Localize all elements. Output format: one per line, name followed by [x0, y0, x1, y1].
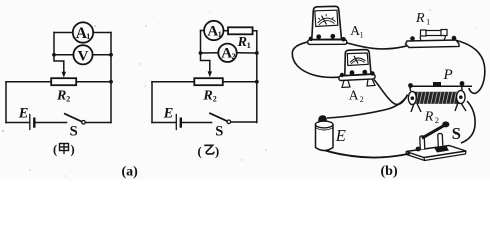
- slider arrowhead: [208, 71, 212, 77]
- battery E plates: [175, 115, 177, 130]
- battery cell E: [315, 115, 333, 150]
- node junction V right: [109, 53, 113, 57]
- svg-text:2: 2: [360, 95, 364, 104]
- base post right: [341, 37, 346, 42]
- wire rheostat right: [76, 81, 111, 83]
- wire rheostat left: [152, 81, 194, 83]
- feet right: [455, 103, 466, 112]
- inner line: [316, 128, 333, 130]
- wire battery left: [6, 122, 29, 124]
- wire A1 to R1: [224, 30, 229, 32]
- voltmeter V circle: [73, 45, 92, 64]
- wire slider feed: [201, 53, 210, 73]
- wire battery left: [152, 122, 176, 124]
- base plank: [339, 74, 375, 80]
- cap left: [421, 30, 427, 36]
- lever: [422, 126, 444, 138]
- wire rheostat right: [223, 81, 257, 83]
- face: [347, 53, 368, 66]
- node junction right: [255, 51, 259, 55]
- svg-text:(a): (a): [122, 165, 139, 180]
- wire switch to battery bottom: [319, 148, 410, 158]
- base slab: [406, 40, 460, 48]
- needle: [322, 16, 327, 25]
- wire A1 to R1: [346, 41, 422, 49]
- resistor R2 (rheostat body): [51, 78, 76, 85]
- contact block: [434, 146, 449, 153]
- rheostat P: [408, 81, 472, 112]
- svg-text:R: R: [415, 11, 425, 26]
- cap right: [441, 30, 447, 36]
- wire top left corner: [201, 30, 205, 32]
- handle knob: [442, 121, 449, 127]
- left post blob: [416, 147, 421, 152]
- svg-text:S: S: [70, 124, 78, 140]
- node junction left: [199, 51, 203, 55]
- right bracket+post: [461, 83, 464, 91]
- svg-text:(: (: [53, 143, 57, 157]
- svg-text:1: 1: [247, 41, 251, 50]
- slider rail: [409, 85, 472, 87]
- wire battery to switch: [182, 122, 212, 124]
- base post left: [340, 73, 344, 77]
- resistor R1 box: [228, 27, 253, 34]
- wire A2-right to rheostat left: [374, 80, 408, 105]
- wire R1 to right: [253, 30, 257, 32]
- foot right: [367, 79, 375, 86]
- coil hatch: [412, 92, 460, 104]
- svg-text:(b): (b): [381, 164, 398, 179]
- wire slider feed: [54, 55, 64, 73]
- terminal left: [350, 70, 355, 75]
- ammeter A1 circle: [73, 22, 93, 42]
- base post right: [370, 71, 374, 75]
- svg-text:E: E: [163, 105, 174, 121]
- wire battery to switch: [36, 122, 67, 124]
- post right: [438, 134, 443, 147]
- wire R1-right big right curve: [455, 40, 485, 93]
- wire right vertical: [256, 31, 258, 123]
- wire rheostat right to switch: [461, 101, 475, 143]
- node junction slider tap: [52, 53, 56, 57]
- battery E plates: [29, 115, 31, 130]
- body: [312, 6, 342, 39]
- ammeter A2 circle: [218, 44, 236, 62]
- cylinder: [316, 125, 334, 151]
- wire A2 right: [237, 52, 257, 54]
- clips: [420, 35, 422, 41]
- wire left edge vertical: [151, 82, 153, 123]
- switch S assembly: [406, 121, 466, 160]
- wire switch to right vertical: [231, 121, 257, 123]
- button terminal: [318, 115, 327, 122]
- svg-text:2: 2: [435, 115, 439, 125]
- wire voltmeter left: [54, 54, 73, 56]
- resistor R1 assembly: [406, 30, 460, 48]
- label (jia): [53, 143, 75, 157]
- face: [315, 10, 338, 26]
- node junction: [255, 80, 259, 84]
- body: [345, 50, 371, 76]
- post left: [420, 136, 425, 150]
- left end ellipse: [408, 91, 416, 104]
- meter A1: [308, 6, 347, 44]
- svg-text:S: S: [215, 124, 223, 140]
- left bracket+post: [410, 84, 411, 91]
- wire A2 left: [201, 52, 219, 54]
- wire left edge vertical: [5, 82, 7, 123]
- ammeter A1 circle: [204, 21, 223, 40]
- svg-text:1: 1: [426, 16, 430, 26]
- terminal left: [316, 34, 321, 39]
- label (yi): [198, 145, 220, 159]
- wire A1-left to A2-left: [292, 42, 339, 78]
- svg-text:R: R: [237, 35, 247, 50]
- right end ellipse: [457, 90, 466, 103]
- resistor R2 (rheostat body): [194, 78, 223, 85]
- wire top to ammeter: [54, 32, 73, 34]
- switch S lever: [65, 114, 82, 122]
- scale ticks: [318, 14, 333, 19]
- svg-text:): ): [71, 143, 75, 157]
- switch S contact circle: [82, 121, 86, 125]
- base plate: [406, 146, 466, 158]
- base plank: [308, 40, 347, 45]
- svg-text:1: 1: [218, 30, 222, 39]
- wire voltmeter right: [93, 54, 111, 56]
- feet left: [411, 104, 421, 113]
- wire ammeter to right: [93, 32, 111, 34]
- scale arc: [318, 18, 336, 23]
- tube body: [426, 31, 442, 36]
- svg-text:P: P: [443, 67, 453, 83]
- svg-text:1: 1: [86, 32, 90, 41]
- post right: [452, 36, 457, 41]
- scan speckles: [2, 9, 477, 176]
- wire battery top to rheostat: [327, 97, 407, 118]
- svg-text:2: 2: [232, 52, 236, 61]
- needle: [354, 56, 358, 64]
- slider arrowhead: [62, 72, 66, 78]
- svg-text:V: V: [78, 49, 89, 65]
- svg-text:): ): [215, 145, 219, 159]
- switch S contact circle: [227, 120, 231, 124]
- post left: [410, 36, 415, 41]
- svg-text:R: R: [424, 110, 434, 125]
- svg-text:1: 1: [360, 30, 364, 39]
- svg-text:A: A: [349, 88, 359, 103]
- wire rheostat left: [6, 81, 51, 83]
- coil body: [411, 92, 461, 104]
- switch S lever: [210, 113, 227, 121]
- meter A2: [339, 50, 375, 88]
- terminal right: [362, 70, 367, 75]
- wire left inner vertical: [200, 31, 202, 54]
- wire switch to right vertical: [85, 122, 111, 124]
- svg-text:2: 2: [213, 95, 217, 104]
- wire right vertical: [110, 33, 112, 123]
- svg-text:E: E: [18, 105, 29, 121]
- wire left inner vertical: [53, 33, 55, 55]
- svg-text:2: 2: [66, 95, 70, 104]
- terminal right: [330, 34, 335, 39]
- svg-text:R: R: [56, 88, 66, 103]
- slider knob: [433, 82, 441, 87]
- svg-text:R: R: [202, 88, 212, 103]
- node junction right-rheostat: [109, 80, 113, 84]
- svg-text:S: S: [452, 124, 461, 143]
- base post left: [309, 37, 314, 42]
- foot left: [342, 80, 350, 87]
- scale arc: [350, 58, 366, 62]
- svg-text:(: (: [198, 145, 202, 159]
- svg-text:E: E: [335, 126, 346, 145]
